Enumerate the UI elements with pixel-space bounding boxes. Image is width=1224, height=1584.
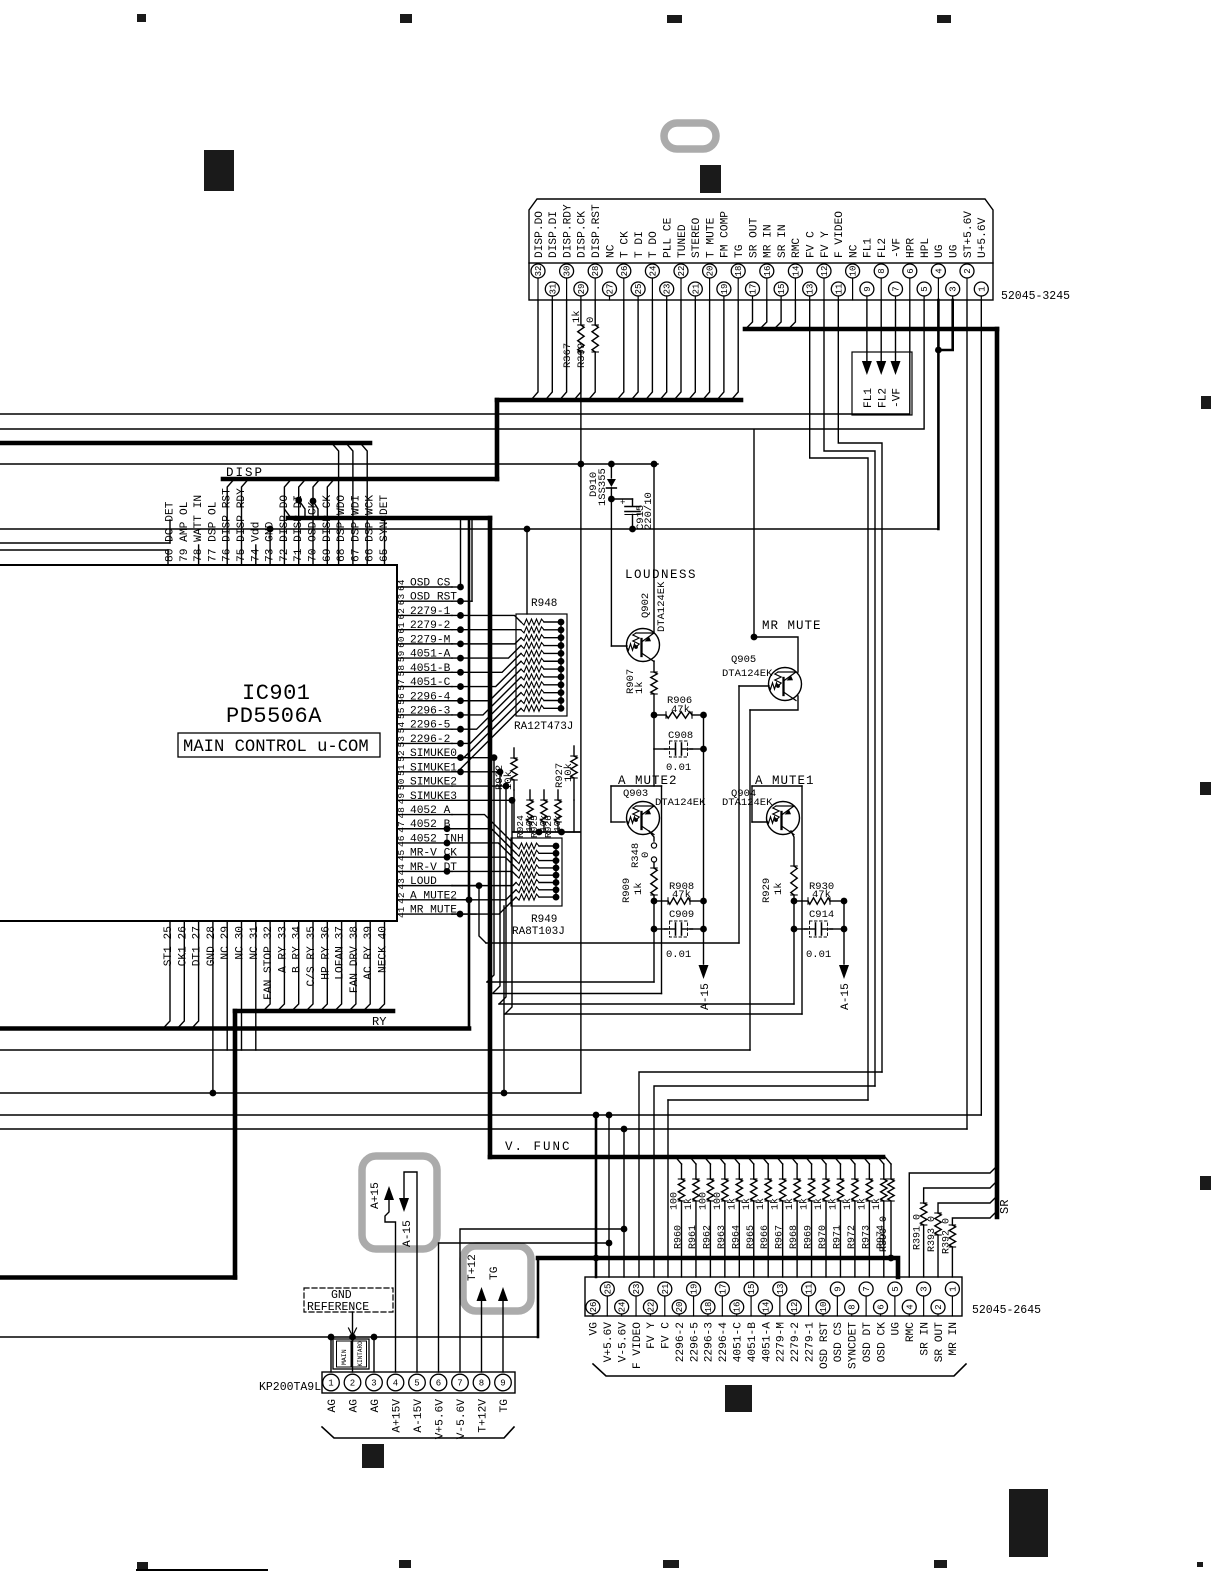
wire IC pin 58 4051-B to R948 r5 xyxy=(452,653,521,672)
SR bus vertical (thick) xyxy=(995,329,1000,1217)
svg-text:22: 22 xyxy=(677,266,687,277)
DISP bus jog to IC pin xyxy=(227,479,234,565)
node junction MR-V DT xyxy=(444,868,451,875)
node junction OSD CS xyxy=(457,584,464,591)
connector 52045-2645 outline xyxy=(585,1277,962,1316)
connector 52045-2645 pin 13 (2279-M) xyxy=(773,1282,787,1316)
svg-text:R929: R929 xyxy=(761,878,773,903)
node junction R948 common xyxy=(558,642,565,649)
resistor R906 47k xyxy=(654,714,666,716)
IC901 function label box xyxy=(178,733,380,757)
wire pin 20 T MUTE to tuner bus xyxy=(703,300,710,400)
wire F VIDEO from pin 11 xyxy=(838,300,882,1072)
jumper R348 0 pads xyxy=(651,843,656,848)
node junction pin 60 xyxy=(457,640,464,647)
svg-text:24: 24 xyxy=(618,1302,628,1313)
svg-text:64: 64 xyxy=(396,579,407,591)
svg-text:FV C: FV C xyxy=(661,1322,673,1349)
wire U+5.6V pin 1 down to rail xyxy=(980,300,982,1115)
svg-text:2296-4: 2296-4 xyxy=(410,691,451,703)
svg-text:R391 0: R391 0 xyxy=(913,1214,924,1250)
IC901 pin 41 MR MUTE xyxy=(397,913,452,915)
wire LOUD tap xyxy=(452,885,479,887)
node junction xyxy=(651,461,658,468)
resistor R949 element 4 xyxy=(516,865,539,871)
svg-text:4051-B: 4051-B xyxy=(747,1322,759,1363)
svg-text:15: 15 xyxy=(747,1284,757,1295)
wire Q903 collector down xyxy=(649,831,654,841)
connector 52045-2645 pin 9 (OSD CS) xyxy=(830,1282,844,1316)
wire A MUTE2 branch down xyxy=(661,786,663,994)
svg-text:1k: 1k xyxy=(773,882,785,895)
resistor R926 10k xyxy=(557,790,559,800)
svg-text:A-15: A-15 xyxy=(402,1220,414,1247)
wire IC pin 46 4052 INH to R949 r3 xyxy=(452,843,516,861)
svg-text:OSD CS: OSD CS xyxy=(410,578,451,590)
svg-text:47k: 47k xyxy=(812,889,831,901)
registration mark bottom 4 xyxy=(934,1560,947,1568)
wire Q904 collector down xyxy=(791,831,794,866)
wire IC pin 27 DT1 to serial bus xyxy=(192,921,199,1029)
wire pin 15 SR IN to SR bus xyxy=(774,300,781,329)
svg-text:1k: 1k xyxy=(813,1198,825,1210)
IC901 pin 55 2296-3 xyxy=(397,714,452,716)
svg-text:V. FUNC: V. FUNC xyxy=(505,1140,572,1154)
connector 52045-2645 pin 14 (4051-A) xyxy=(758,1300,772,1316)
node junction MR-V CK xyxy=(444,854,451,861)
UG riser lower part xyxy=(537,1258,540,1337)
wire Q904 node to control line xyxy=(793,929,795,1004)
transistor Q905 DTA124EK xyxy=(769,668,802,701)
connector 52045-2645 pin 10 (OSD RST) xyxy=(816,1300,830,1316)
callout box around FL1 FL2 -VF xyxy=(852,352,912,415)
wire IC pin 61 2279-2 to R948 r2 xyxy=(452,629,521,631)
wire Q902 emitter up xyxy=(653,464,655,632)
registration mark bottom 1 xyxy=(137,1562,148,1570)
svg-text:R972: R972 xyxy=(847,1225,858,1249)
svg-text:T+12: T+12 xyxy=(467,1254,479,1281)
svg-text:NC 29: NC 29 xyxy=(220,926,232,960)
wire IC pin 37 LOFAN to RY bus xyxy=(335,921,342,1011)
resistor R948 element 10 xyxy=(521,690,544,696)
svg-text:72 DISP DO: 72 DISP DO xyxy=(279,495,291,562)
connector 52045-3245 pin 27 (NC) xyxy=(603,282,617,300)
svg-text:69 DISP CK: 69 DISP CK xyxy=(322,495,334,562)
svg-text:51: 51 xyxy=(396,764,407,776)
node junction R949 common xyxy=(553,857,560,864)
svg-text:A-15: A-15 xyxy=(700,983,712,1010)
svg-text:T DI: T DI xyxy=(634,231,646,258)
registration mark right 3 xyxy=(1200,1176,1211,1190)
connector 52045-3245 pin 32 (DISP.DO) xyxy=(531,264,545,300)
svg-text:OSD DT: OSD DT xyxy=(862,1322,874,1363)
svg-text:2: 2 xyxy=(350,1379,355,1389)
svg-text:1k: 1k xyxy=(799,1198,811,1210)
svg-text:DT1 27: DT1 27 xyxy=(192,926,204,966)
node junction C909 right xyxy=(700,926,707,933)
node junction V-5.6V riser xyxy=(621,1126,628,1133)
IC901 pin 49 SIMUKE3 xyxy=(397,799,452,801)
svg-text:R909: R909 xyxy=(621,878,633,903)
wire RMC from SR bus xyxy=(909,1166,997,1277)
svg-text:220/10: 220/10 xyxy=(643,492,655,530)
wire bottom pin 21 FV C xyxy=(667,1100,669,1277)
black index mark below connector xyxy=(725,1385,752,1412)
wire V+5.6V to bottom connector xyxy=(439,1243,610,1372)
registration mark top 1 xyxy=(137,14,146,22)
svg-text:13: 13 xyxy=(806,284,816,295)
svg-text:V+5.6V: V+5.6V xyxy=(435,1399,447,1440)
wire pin 18 TG to tuner bus xyxy=(731,300,738,400)
node junction pin 56 xyxy=(457,697,464,704)
resistor R949 element 6 xyxy=(516,880,539,886)
net arrow -VF xyxy=(895,300,897,361)
svg-text:16: 16 xyxy=(763,266,773,277)
svg-text:6: 6 xyxy=(436,1379,441,1389)
IC901 pin 62 2279-1 xyxy=(397,614,452,616)
svg-text:15: 15 xyxy=(777,284,787,295)
svg-text:17: 17 xyxy=(718,1284,728,1295)
node junction LOUD xyxy=(476,882,483,889)
svg-text:IC901: IC901 xyxy=(242,681,311,706)
wire IC pin 34 B RY to RY bus xyxy=(292,921,299,1011)
svg-text:PD5506A: PD5506A xyxy=(226,704,322,729)
wire IC pin 59 4051-A to R948 r4 xyxy=(452,646,521,659)
svg-text:FL2: FL2 xyxy=(877,238,889,258)
svg-text:30: 30 xyxy=(563,266,573,277)
wire IC pin 74 Vdd stub xyxy=(255,545,257,565)
svg-text:25: 25 xyxy=(634,284,644,295)
wire IC pin 56 2296-4 to R948 r7 xyxy=(452,669,521,701)
DSP bus jog to IC pin xyxy=(332,443,339,565)
wire SR OUT from SR bus xyxy=(938,1196,997,1213)
RY relay bus (thick) xyxy=(235,1009,393,1014)
resistor R972 1k xyxy=(849,1157,855,1164)
node junction OSD RST xyxy=(457,598,464,605)
svg-text:R948: R948 xyxy=(531,598,557,610)
wire IC pin 50 SIMUKE2 tap xyxy=(452,785,506,787)
svg-text:R962: R962 xyxy=(702,1225,713,1249)
svg-text:7: 7 xyxy=(892,286,902,291)
svg-text:52045-2645: 52045-2645 xyxy=(972,1304,1041,1317)
resistor R924 10k xyxy=(529,790,531,800)
svg-text:DISP.DI: DISP.DI xyxy=(548,211,560,258)
A-15 arrow (Q904) xyxy=(839,965,849,979)
connector 52045-2645 pin 6 (OSD CK) xyxy=(874,1300,888,1316)
power badge A+15/A-15 xyxy=(362,1156,437,1249)
connector 52045-2645 skirt xyxy=(593,1364,966,1376)
wire Q902 base xyxy=(611,645,627,647)
DISP distribution bus xyxy=(223,477,497,482)
node junction R949 common xyxy=(553,872,560,879)
node junction xyxy=(578,461,585,468)
DISP bus jog to IC pin xyxy=(313,479,320,565)
connector 52045-3245 pin 29 (DISP.CK) xyxy=(574,282,588,300)
connector 52045-3245 pin 6 (HPR) xyxy=(903,264,917,300)
IC901 pin 44 MR-V DT xyxy=(397,870,452,872)
resistor R967 1k xyxy=(777,1157,783,1164)
svg-text:56: 56 xyxy=(396,693,407,705)
svg-text:54: 54 xyxy=(396,721,407,733)
svg-text:61: 61 xyxy=(396,622,407,634)
wire MR MUTE to Q905 collector xyxy=(754,637,798,672)
connector 52045-3245 pin 22 (TUNED) xyxy=(674,264,688,300)
capacitor C908 0.01 xyxy=(653,715,655,749)
wire UG pin 4 down xyxy=(937,300,940,529)
resistor R971 1k xyxy=(834,1157,840,1164)
resistor R974 1k xyxy=(878,1157,884,1164)
svg-text:LOUDNESS: LOUDNESS xyxy=(625,568,697,582)
svg-text:50: 50 xyxy=(396,778,407,790)
wire IC pin 54 2296-5 to R948 r9 xyxy=(452,685,521,729)
A+15 arrow xyxy=(384,1186,394,1200)
svg-text:T DO: T DO xyxy=(648,231,660,258)
svg-text:7: 7 xyxy=(457,1379,462,1389)
resistor R949 element 3 xyxy=(516,858,539,864)
svg-text:AG: AG xyxy=(349,1399,361,1413)
resistor R907 1k xyxy=(653,661,655,672)
connector 52045-3245 pin 20 (T MUTE) xyxy=(703,264,717,300)
svg-text:SYNCDET: SYNCDET xyxy=(848,1322,860,1369)
node junction R948 feed xyxy=(524,526,531,533)
black rectangle mark upper-left xyxy=(204,150,234,191)
svg-text:12: 12 xyxy=(820,266,830,277)
wire IC pin 48 4052 A to R949 r1 xyxy=(452,815,516,846)
svg-text:5: 5 xyxy=(891,1286,901,1291)
IC901 pin 52 SIMUKE0 xyxy=(397,757,452,759)
connector 52045-3245 pin 18 (TG) xyxy=(731,264,745,300)
connector KP200TA9L outline xyxy=(322,1372,515,1393)
svg-text:0.01: 0.01 xyxy=(666,949,691,961)
svg-text:4051-A: 4051-A xyxy=(410,649,451,661)
serial bus ST1/CK1/DT1 (thick) xyxy=(0,1026,469,1031)
transistor Q902 DTA124EK xyxy=(627,629,660,662)
svg-text:1k: 1k xyxy=(571,310,583,323)
node junction V+5.6V riser xyxy=(606,1112,613,1119)
wire IC pin 41 MR MUTE to R949 r8 xyxy=(452,897,516,914)
wire IC pin 42 A MUTE2 to R949 r7 xyxy=(452,890,516,900)
resistor R948 element 6 xyxy=(521,658,544,664)
svg-text:46: 46 xyxy=(396,835,407,847)
svg-text:52: 52 xyxy=(396,750,407,762)
wire IC pin 51 SIMUKE1 tap xyxy=(452,771,500,773)
wire IC pin 78 WATT IN stub xyxy=(198,545,200,565)
node junction V+5.6V tie xyxy=(606,1240,613,1247)
wire IC pin 60 2279-M to R948 r3 xyxy=(452,638,521,644)
node junction R949 common xyxy=(553,843,560,850)
resistor R399 0 on DISP.RST line xyxy=(594,300,596,325)
svg-text:TG: TG xyxy=(499,1399,511,1413)
svg-text:1k: 1k xyxy=(755,1198,767,1210)
node junction R906 right xyxy=(700,712,707,719)
svg-text:1: 1 xyxy=(948,1286,958,1291)
svg-text:1: 1 xyxy=(977,286,987,291)
node junction pin 58 xyxy=(457,669,464,676)
svg-text:MR IN: MR IN xyxy=(948,1322,960,1356)
connector 52045-2645 pin 1 (MR IN) xyxy=(945,1282,959,1316)
wire pin 21 STEREO to tuner bus xyxy=(688,300,695,400)
svg-text:4051-C: 4051-C xyxy=(733,1322,745,1363)
IC901 pin 57 4051-C xyxy=(397,686,452,688)
wire pin 24 T DO to tuner bus xyxy=(645,300,652,400)
svg-text:SIMUKE2: SIMUKE2 xyxy=(410,777,457,789)
svg-text:5: 5 xyxy=(920,286,930,291)
node junction VG xyxy=(593,1112,600,1119)
svg-text:C909: C909 xyxy=(669,909,694,921)
IC901 pin 64 OSD CS xyxy=(397,586,452,588)
capacitor C915 220/10 electrolytic xyxy=(611,498,632,500)
svg-text:47: 47 xyxy=(396,821,407,832)
svg-text:HPR: HPR xyxy=(906,238,918,258)
wire IC pin 33 A RY to RY bus xyxy=(277,921,284,1011)
wire Q905 base feed xyxy=(738,686,740,943)
wire IC pin 35 C/S RY to RY bus xyxy=(306,921,313,1011)
svg-text:DTA124EK: DTA124EK xyxy=(656,581,668,632)
connector 52045-2645 pin 26 (VG) xyxy=(586,1300,600,1316)
resistor R965 1k xyxy=(748,1157,754,1164)
svg-text:2296-2: 2296-2 xyxy=(675,1322,687,1362)
node junction R949 common xyxy=(553,850,560,857)
svg-text:47k: 47k xyxy=(671,704,690,716)
svg-text:T+12V: T+12V xyxy=(478,1399,490,1433)
connector 52045-2645 pin 3 (SR IN) xyxy=(917,1282,931,1316)
svg-text:1k: 1k xyxy=(871,1198,883,1210)
svg-text:PLL CE: PLL CE xyxy=(663,217,675,258)
wire R927 lower stub xyxy=(573,778,575,800)
resistor R925 10k xyxy=(543,790,545,800)
svg-text:20: 20 xyxy=(675,1302,685,1313)
DISP bus jog to IC pin xyxy=(327,479,334,565)
svg-text:DISP.CK: DISP.CK xyxy=(577,211,589,258)
svg-text:MR MUTE: MR MUTE xyxy=(762,619,822,633)
resistor R969 1k xyxy=(806,1157,812,1164)
svg-text:28: 28 xyxy=(591,266,601,277)
svg-text:9: 9 xyxy=(833,1286,843,1291)
connector 52045-3245 pin 13 (FV C) xyxy=(803,282,817,300)
connector 52045-2645 pin 11 (2279-1) xyxy=(802,1282,816,1316)
R949 common rail xyxy=(555,846,557,897)
svg-text:5: 5 xyxy=(414,1379,419,1389)
wire Q903 base xyxy=(611,821,625,823)
svg-text:53: 53 xyxy=(396,736,407,748)
svg-text:48: 48 xyxy=(396,807,407,819)
svg-text:19: 19 xyxy=(720,284,730,295)
IC901 pin 48 4052 A xyxy=(397,814,452,816)
svg-text:R970: R970 xyxy=(818,1225,829,1249)
svg-text:1: 1 xyxy=(328,1379,333,1389)
node junction pin 59 xyxy=(457,655,464,662)
net arrow FL1 xyxy=(866,300,868,361)
svg-text:14: 14 xyxy=(791,266,801,277)
DISP bus jog to IC pin xyxy=(299,479,306,565)
wire SIMUKE3 vertical xyxy=(505,800,512,1014)
svg-text:10: 10 xyxy=(849,266,859,277)
svg-text:SIMUKE3: SIMUKE3 xyxy=(410,791,457,803)
node junction R948 common xyxy=(558,681,565,688)
wire SIMUKE1 vertical xyxy=(493,772,500,993)
black square mark bottom-right xyxy=(1009,1489,1048,1557)
svg-text:2296-5: 2296-5 xyxy=(689,1322,701,1362)
svg-text:FV C: FV C xyxy=(806,231,818,258)
node junction SIMUKE1 xyxy=(497,768,504,775)
svg-text:NC: NC xyxy=(605,244,617,258)
capacitor C909 0.01 xyxy=(653,901,655,929)
svg-text:ST1 25: ST1 25 xyxy=(163,926,175,966)
node junction C914 right xyxy=(841,926,848,933)
resistor R393 0 xyxy=(935,1213,941,1235)
svg-text:R960: R960 xyxy=(674,1225,685,1249)
connector 52045-2645 pin 2 (SR OUT) xyxy=(931,1300,945,1316)
svg-text:B RY 34: B RY 34 xyxy=(292,926,304,973)
node junction R948 common xyxy=(558,634,565,641)
connector 52045-3245 pin 12 (FV Y) xyxy=(817,264,831,300)
wire HPL from pin 5 to left edge xyxy=(0,300,924,429)
wire V-5.6V to bottom connector xyxy=(460,1229,624,1372)
svg-text:17: 17 xyxy=(749,284,759,295)
wire AG pin3 xyxy=(373,1337,375,1372)
svg-text:FAN DRV 38: FAN DRV 38 xyxy=(349,926,361,993)
connector 52045-2645 pin 8 (SYNCDET) xyxy=(845,1300,859,1316)
svg-text:VG: VG xyxy=(589,1322,601,1336)
svg-text:A-15: A-15 xyxy=(840,983,852,1010)
svg-text:1k: 1k xyxy=(784,1198,796,1210)
resistor R948 element 3 xyxy=(521,635,544,641)
registration mark bottom 3 xyxy=(663,1560,679,1568)
FV Y crossover xyxy=(654,1086,875,1277)
wire A MUTE2 tap to RY riser xyxy=(452,899,469,901)
node junction MR MUTE row xyxy=(457,911,464,918)
registration mark right 1 xyxy=(1201,396,1211,409)
connector 52045-3245 pin 17 (SR OUT) xyxy=(746,282,760,300)
svg-text:10k: 10k xyxy=(563,763,575,782)
capacitor C914 0.01 xyxy=(793,901,795,929)
connector 52045-3245 pin 25 (T DI) xyxy=(631,282,645,300)
connector 52045-3245 pin 21 (STEREO) xyxy=(688,282,702,300)
svg-text:RMC: RMC xyxy=(791,238,803,258)
node junction D910 cathode xyxy=(608,496,615,503)
svg-text:75 DISP RDY: 75 DISP RDY xyxy=(236,488,248,562)
resistor R948 element 2 xyxy=(521,627,544,633)
wire SIMUKE2 vertical xyxy=(499,786,506,1004)
connector 52045-2645 pin 15 (4051-B) xyxy=(744,1282,758,1316)
serial drop (thick) from OSD bus xyxy=(468,518,471,1029)
svg-text:MR IN: MR IN xyxy=(763,224,775,258)
connector 52045-3245 pin 16 (MR IN) xyxy=(760,264,774,300)
svg-text:8: 8 xyxy=(877,268,887,273)
wire IC pin 62 2279-1 to R948 r1 xyxy=(452,615,521,622)
svg-text:SR OUT: SR OUT xyxy=(934,1322,946,1363)
resistor R973 1k xyxy=(863,1157,869,1164)
svg-text:29: 29 xyxy=(577,284,587,295)
wire DISP.CK branch down xyxy=(580,352,582,1093)
resistor R960 100 xyxy=(676,1157,682,1164)
svg-text:4: 4 xyxy=(934,268,944,273)
black index mark below KP200TA9L xyxy=(362,1444,384,1468)
connector 52045-3245 pin 15 (SR IN) xyxy=(774,282,788,300)
svg-text:RA12T473J: RA12T473J xyxy=(514,721,573,733)
wire pin 14 RMC to SR bus xyxy=(788,300,795,329)
node junction pin 62 xyxy=(457,612,464,619)
svg-text:RA8T103J: RA8T103J xyxy=(512,926,565,938)
wire IC pin 51 SIMUKE1 to R948 r12 xyxy=(452,708,521,772)
svg-text:44: 44 xyxy=(396,864,407,876)
connector 52045-3245 pin 19 (FM COMP) xyxy=(717,282,731,300)
node junction OSD CK xyxy=(310,498,317,505)
svg-text:3: 3 xyxy=(920,1286,930,1291)
wire MR MUTE net vertical xyxy=(753,430,755,637)
svg-text:V-5.6V: V-5.6V xyxy=(456,1399,468,1440)
registration mark bottom 2 xyxy=(399,1560,411,1568)
